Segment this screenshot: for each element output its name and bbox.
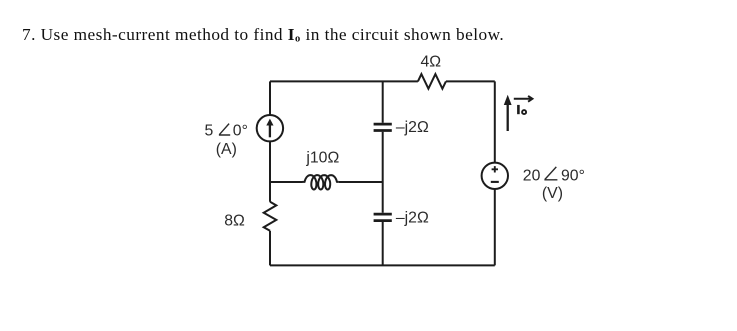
svg-text:20: 20: [523, 167, 541, 184]
svg-text:(V): (V): [542, 185, 563, 202]
svg-text:4Ω: 4Ω: [421, 54, 442, 71]
svg-text:90°: 90°: [561, 167, 585, 184]
arrow Io (current direction): [504, 95, 512, 131]
svg-text:(A): (A): [216, 141, 237, 158]
wire left branch middle: [269, 141, 271, 201]
label j10ohm: [305, 149, 339, 166]
current source IS 5&#8736;0: [257, 115, 283, 141]
wire middle horizontal left: [270, 181, 303, 183]
label 20 angle 90 (V): [523, 167, 585, 202]
wire top-right segment: [446, 80, 495, 82]
label 8ohm: [224, 213, 245, 230]
vector arrow over Io label: [514, 96, 533, 102]
capacitor C -j2ohm (upper): [374, 124, 392, 130]
wire middle horizontal right: [339, 181, 383, 183]
svg-text:j10Ω: j10Ω: [305, 149, 339, 166]
resistor R 4ohm (top): [418, 74, 446, 89]
capacitor C -j2ohm (lower): [374, 214, 392, 221]
label -j2ohm (lower): [396, 209, 429, 226]
voltage source VS 20&#8736;90: [482, 163, 508, 189]
wire middle branch bottom: [382, 222, 384, 266]
wire left branch bottom: [269, 231, 271, 266]
svg-text:–j2Ω: –j2Ω: [396, 209, 429, 226]
wire top-left segment: [270, 80, 418, 82]
wire left branch top: [269, 81, 271, 115]
label -j2ohm (upper): [396, 119, 429, 136]
wire middle branch top: [382, 81, 384, 122]
inductor L j10ohm: [302, 175, 338, 189]
svg-text:0°: 0°: [233, 123, 248, 140]
label 4ohm: [421, 54, 442, 71]
resistor R 8ohm (left): [264, 202, 277, 231]
wire right branch upper: [494, 81, 496, 162]
wire middle branch mid: [382, 132, 384, 213]
svg-text:–j2Ω: –j2Ω: [396, 119, 429, 136]
label 5 angle 0 (A): [205, 123, 248, 158]
label Io: [518, 105, 526, 114]
svg-text:8Ω: 8Ω: [224, 213, 245, 230]
wire bottom: [270, 264, 495, 266]
problem title: [22, 25, 504, 45]
svg-text:5: 5: [205, 123, 214, 140]
wire right branch lower: [494, 189, 496, 265]
